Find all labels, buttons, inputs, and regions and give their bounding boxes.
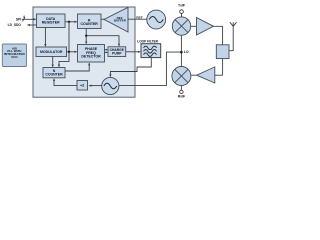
- svg-text:COUNTER: COUNTER: [81, 22, 99, 26]
- svg-text:MODULATOR: MODULATOR: [40, 50, 63, 54]
- svg-text:÷2: ÷2: [80, 83, 85, 88]
- svg-text:REF: REF: [136, 16, 142, 20]
- svg-text:PUMP: PUMP: [112, 52, 122, 56]
- svg-text:LD_SDO: LD_SDO: [8, 23, 22, 27]
- svg-text:RxIF: RxIF: [178, 95, 185, 99]
- svg-text:BUFFER: BUFFER: [114, 19, 127, 23]
- svg-text:4: 4: [23, 15, 25, 19]
- svg-text:COUNTER: COUNTER: [45, 73, 63, 77]
- svg-text:LOOP FILTER: LOOP FILTER: [137, 39, 158, 43]
- svg-text:TxIF: TxIF: [178, 4, 185, 8]
- svg-text:REGISTER: REGISTER: [42, 20, 60, 24]
- svg-text:VCO: VCO: [11, 55, 18, 59]
- svg-text:LO: LO: [184, 50, 189, 54]
- svg-text:DETECTOR: DETECTOR: [81, 54, 101, 58]
- svg-text:SPI: SPI: [16, 17, 21, 21]
